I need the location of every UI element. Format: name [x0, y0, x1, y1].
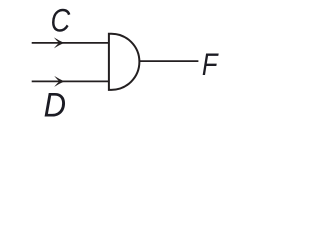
arrowhead on wire D	[54, 76, 64, 87]
svg-text:F: F	[202, 48, 219, 83]
AND gate U1	[109, 34, 139, 90]
wire input C	[32, 42, 110, 44]
svg-text:C: C	[51, 3, 71, 39]
wire output F	[139, 60, 198, 62]
arrowhead on wire C	[54, 37, 64, 48]
svg-text:D: D	[44, 86, 66, 124]
wire input D	[32, 80, 110, 82]
